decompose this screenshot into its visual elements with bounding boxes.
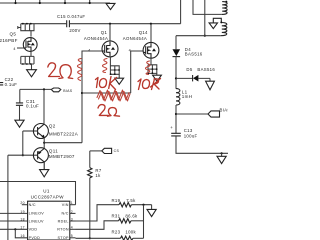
- svg-text:AON6454A: AON6454A: [84, 36, 108, 41]
- svg-text:4: 4: [129, 48, 131, 52]
- node D5 tap: [175, 77, 177, 79]
- svg-text:MMBT2907: MMBT2907: [49, 154, 75, 159]
- wire VIN feed: [0, 182, 76, 205]
- svg-text:BIAS: BIAS: [63, 89, 73, 93]
- annotation squiggle Q1 source: [102, 59, 107, 73]
- svg-text:R19: R19: [112, 198, 121, 203]
- pin 19 LINEOV: [0, 212, 28, 214]
- svg-text:AON6454A: AON6454A: [123, 36, 147, 41]
- svg-text:C15: C15: [57, 14, 66, 19]
- svg-text:VIN: VIN: [62, 203, 69, 207]
- pin 16 PVDD: [15, 229, 27, 238]
- node base rail: [22, 154, 24, 156]
- svg-text:4: 4: [13, 47, 15, 51]
- net flag BIAS right: [208, 111, 220, 117]
- transistor Q14: [123, 24, 159, 58]
- pin 2 N/C: [70, 212, 76, 214]
- wire Q1 gate: [82, 51, 102, 143]
- node R7 to CS line: [89, 237, 91, 239]
- svg-text:N/C: N/C: [29, 203, 36, 207]
- diode D4: [173, 36, 203, 57]
- resistor R7: [88, 151, 102, 238]
- svg-text:R31: R31: [112, 214, 121, 219]
- svg-text:N/C: N/C: [61, 212, 68, 216]
- wire drain riser to top: [180, 0, 182, 24]
- svg-text:20: 20: [20, 201, 24, 205]
- annotation squiggle Q14 source: [145, 61, 149, 75]
- transformer winding W1: [222, 2, 227, 15]
- node Q14 drain: [150, 23, 152, 25]
- wire L1 to C13: [175, 105, 177, 133]
- pin 18 LINEUV: [0, 220, 28, 222]
- transistor Q2: [23, 124, 78, 139]
- wire base rail: [22, 131, 24, 155]
- transistor Q11: [33, 148, 74, 170]
- annotation 10R: [138, 79, 141, 90]
- svg-text:1mH: 1mH: [182, 94, 192, 99]
- wire C13 to gnd rail: [176, 136, 228, 153]
- wire transformer primary top: [193, 0, 222, 14]
- svg-text:RDEL: RDEL: [58, 219, 69, 223]
- svg-text:100uF: 100uF: [184, 133, 198, 138]
- Q5 package pins grid bottom: [21, 52, 34, 64]
- ground right rail: [221, 153, 223, 156]
- svg-text:0.047uF: 0.047uF: [67, 14, 85, 19]
- svg-text:Q11: Q11: [49, 148, 58, 153]
- annotation 10K: [96, 78, 99, 88]
- inductor L1: [176, 89, 192, 105]
- wire Q5 drain: [30, 31, 32, 37]
- node stub 2: [39, 0, 41, 3]
- resistor R19: [76, 198, 152, 221]
- pin 3 RDEL: [70, 220, 76, 222]
- svg-text:200V: 200V: [69, 28, 80, 33]
- svg-text:7.5k: 7.5k: [126, 198, 136, 203]
- svg-text:18: 18: [20, 217, 24, 221]
- svg-text:0.1uF: 0.1uF: [26, 104, 39, 109]
- off-page arrow top bus: [106, 3, 115, 9]
- capacitor C22: [0, 77, 17, 87]
- svg-text:216PBF: 216PBF: [0, 38, 18, 43]
- svg-text:4: 4: [88, 48, 90, 52]
- node VDD jog: [14, 228, 16, 230]
- svg-text:4: 4: [71, 226, 73, 230]
- diode D5: [176, 67, 215, 82]
- wire clamp bus: [34, 23, 181, 25]
- pin 20 N/C: [22, 204, 28, 206]
- wire top bus: [0, 2, 110, 4]
- svg-text:BAS516: BAS516: [197, 67, 215, 72]
- resistor R31: [76, 214, 144, 230]
- svg-text:2: 2: [71, 210, 73, 214]
- node gnd rail: [221, 152, 223, 154]
- node stub 3: [64, 0, 66, 3]
- svg-text:LINEOV: LINEOV: [29, 212, 45, 216]
- svg-text:Q1: Q1: [101, 30, 108, 35]
- svg-text:+: +: [170, 125, 173, 130]
- pin 4 RTON: [70, 228, 76, 230]
- svg-text:100k: 100k: [125, 230, 136, 235]
- svg-text:LINEUV: LINEUV: [29, 219, 44, 223]
- ground Q5: [31, 64, 33, 70]
- svg-text:86.6k: 86.6k: [125, 214, 138, 219]
- node gate drive: [81, 92, 83, 94]
- svg-text:0.1uF: 0.1uF: [5, 82, 18, 87]
- svg-text:VDD: VDD: [29, 228, 38, 232]
- svg-text:1: 1: [71, 201, 73, 205]
- svg-text:19: 19: [20, 210, 24, 214]
- pin 17 VDD: [0, 228, 28, 230]
- svg-text:3: 3: [71, 217, 73, 221]
- wire secondary bottom: [176, 35, 221, 37]
- transistor Q1: [84, 24, 118, 57]
- svg-text:16: 16: [20, 234, 24, 238]
- svg-text:BAS516: BAS516: [185, 51, 203, 56]
- node R rail top: [142, 204, 144, 206]
- transistor Q5: [0, 32, 37, 52]
- Q1 source pins grid: [110, 57, 119, 74]
- ground R19: [151, 205, 153, 210]
- capacitor C13: [170, 125, 197, 138]
- svg-text:1k: 1k: [95, 173, 101, 178]
- svg-text:PVDD: PVDD: [29, 236, 41, 240]
- transformer winding W2: [213, 18, 227, 35]
- svg-text:R23: R23: [112, 230, 121, 235]
- svg-text:U1: U1: [43, 188, 50, 193]
- svg-text:CS: CS: [114, 149, 120, 153]
- svg-text:Q5: Q5: [10, 32, 17, 37]
- svg-text:D5: D5: [186, 67, 192, 72]
- ground C31: [19, 106, 21, 121]
- svg-text:UCC2897APW: UCC2897APW: [31, 195, 65, 200]
- capacitor C31: [16, 89, 39, 108]
- svg-text:5: 5: [71, 234, 73, 238]
- Q5 package pins grid top: [18, 24, 34, 31]
- Q14 source pins grid: [148, 58, 157, 73]
- node Q2 collector tap: [43, 88, 45, 90]
- wire Q2 collector: [43, 89, 45, 124]
- node emitters: [43, 142, 45, 144]
- capacitor C15: [67, 20, 70, 27]
- wire D4 to L1: [175, 57, 177, 89]
- wire Q11 base: [8, 154, 38, 156]
- wire emitter junction: [43, 138, 45, 149]
- node stub 4: [89, 0, 91, 3]
- annotation 2ohm lower: [98, 105, 108, 116]
- wire bias row: [20, 88, 52, 90]
- wire R rail: [143, 205, 145, 239]
- svg-text:Q14: Q14: [139, 30, 148, 35]
- ground Q14 source: [156, 73, 158, 75]
- node stub 1: [15, 0, 17, 3]
- ground winding2: [209, 23, 217, 29]
- pin 5 STOP: [70, 237, 76, 239]
- net flag CS: [90, 150, 102, 152]
- resistor R23: [76, 230, 144, 240]
- wire gate bus: [82, 51, 143, 93]
- node BIAS tap: [175, 113, 177, 115]
- pin 1 VIN: [70, 204, 76, 206]
- node Q1 drain: [109, 23, 111, 25]
- svg-text:MMBT2222A: MMBT2222A: [49, 132, 78, 137]
- svg-text:STOP: STOP: [58, 236, 69, 240]
- net flag BIAS left: [51, 88, 61, 92]
- ground D5: [206, 81, 215, 90]
- ground Q11: [40, 170, 49, 177]
- svg-text:Q2: Q2: [49, 124, 56, 129]
- svg-text:RTON: RTON: [57, 228, 69, 232]
- ground Q1 source: [118, 74, 120, 78]
- wire clamp node riser: [204, 0, 206, 36]
- svg-text:17: 17: [20, 226, 24, 230]
- IC U1: [28, 188, 70, 240]
- annotation squiggle gate resistor: [77, 59, 81, 81]
- wire to BIAS flag: [176, 113, 208, 115]
- wire gate drive from emitters: [44, 142, 82, 144]
- svg-text:BIAS: BIAS: [220, 107, 229, 112]
- wire VDD rail left: [7, 155, 9, 240]
- annotation 2ohm gate: [48, 63, 60, 77]
- annotation zigzag 2ohm wire: [97, 90, 129, 100]
